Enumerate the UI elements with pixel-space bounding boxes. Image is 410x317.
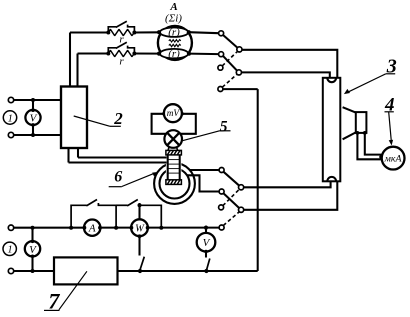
millivoltmeter frame right	[180, 114, 195, 134]
node W voltage bottom junction	[138, 269, 142, 273]
tube 3 top electrode cup	[327, 78, 336, 82]
detector 4 cone upper	[343, 107, 356, 112]
switch S1 bypass (over R1)	[108, 27, 116, 33]
node V1 top rim	[31, 108, 35, 112]
node meter bottom-left	[157, 52, 161, 56]
meter element ellipse bottom with (r)	[160, 48, 188, 60]
node V3 top rim	[31, 240, 35, 244]
microammeter mkA	[382, 147, 405, 170]
detector 4 cone lower	[343, 132, 356, 139]
node detector right pin	[363, 131, 367, 135]
contact C2	[219, 52, 224, 57]
furnace tube 6 bottom cap (hatched)	[166, 180, 182, 185]
wire loop outer end to contact D1	[190, 169, 220, 171]
pole P1	[237, 47, 242, 52]
node V3 top	[31, 226, 35, 230]
wire furnace lower lead	[69, 161, 167, 163]
wire meter to contact C1	[189, 32, 219, 33]
wire lower bottom row right	[118, 270, 258, 272]
wire V3 stubs	[31, 228, 33, 242]
wire W voltage coil down	[138, 236, 140, 255]
node R2 left	[106, 52, 110, 56]
svg-text:4: 4	[384, 95, 395, 116]
svg-text:2: 2	[113, 109, 123, 128]
svg-text:r: r	[119, 56, 124, 68]
wire regulator top to line A	[69, 33, 71, 87]
ammeter A2	[84, 220, 100, 236]
wire P2 to tube top left	[242, 72, 330, 78]
node meter top-right	[187, 30, 191, 34]
wire regulator bottom to furnace upper lead	[77, 148, 79, 158]
terminal X4 (lower source, bottom)	[8, 268, 13, 273]
pole Q2	[239, 207, 244, 212]
switch SA1 dashed C3-P1	[222, 51, 237, 66]
label 6 leader with arrow	[122, 173, 156, 187]
svg-text:A: A	[88, 223, 96, 235]
wire line B left	[78, 52, 109, 54]
heater element lower (zigzag)	[169, 44, 181, 46]
svg-text:3: 3	[386, 55, 397, 77]
node R1 left	[106, 31, 110, 35]
photocell tube 3	[323, 78, 341, 182]
switch SA2 blade D2-Q2	[223, 193, 239, 208]
switch S2 bypass (over R2)	[108, 48, 116, 54]
terminal X1 (upper source, top)	[8, 97, 13, 102]
label 2 leader	[74, 116, 110, 126]
wire V2 stub top	[205, 228, 207, 234]
wire V2 stub bottom	[205, 252, 207, 258]
switch blade V2	[206, 259, 209, 271]
wattmeter W	[131, 219, 148, 236]
svg-text:(r): (r)	[168, 27, 180, 39]
node bypass left	[69, 226, 73, 230]
furnace tube 6 top cap (hatched)	[166, 150, 182, 155]
node bypass mid	[114, 226, 118, 230]
millivoltmeter frame left	[152, 114, 166, 134]
node W right rim	[146, 226, 150, 230]
switch bypass over A and W (three legs)	[71, 205, 87, 227]
contact C4	[218, 87, 223, 92]
switch SA2 blade D1-Q1	[223, 172, 239, 186]
svg-text:(r): (r)	[168, 48, 180, 60]
contact C3	[218, 65, 223, 70]
terminal X3 (lower source, top)	[8, 225, 13, 230]
pole P2	[236, 70, 241, 75]
svg-text:мкА: мкА	[384, 153, 403, 164]
resistor R2 (zigzag, line B)	[108, 50, 134, 56]
contact D1	[219, 168, 224, 173]
wire regulator top to line B	[76, 54, 78, 87]
node microammeter input	[379, 155, 383, 159]
wire upper source top to regulator	[14, 99, 61, 101]
node meter bottom-right	[187, 52, 191, 56]
rheostat 7	[54, 257, 118, 284]
node detector left pin	[356, 131, 360, 135]
wire Q2 to tube bottom right	[244, 181, 338, 210]
node W left rim	[130, 226, 134, 230]
wire upper source bottom to regulator	[14, 134, 61, 136]
switch SA2 dashed D3-Q1	[223, 189, 240, 206]
switch SA1 blade C2-P2	[223, 56, 237, 71]
regulator 2 (autotransformer box)	[61, 87, 87, 149]
svg-text:A: A	[169, 1, 177, 13]
svg-text:1: 1	[8, 113, 13, 124]
wire V1 stubs	[32, 100, 34, 110]
furnace tube 6 white mask	[166, 150, 182, 184]
furnace tube 6 body sides	[167, 154, 169, 181]
svg-text:7: 7	[48, 289, 60, 314]
wire lower bottom row left	[14, 270, 54, 272]
svg-text:W: W	[135, 224, 145, 235]
thermocouple neck	[168, 146, 178, 150]
node R1 right	[132, 31, 136, 35]
node meter top-left	[157, 30, 161, 34]
node bypass right	[159, 226, 163, 230]
meter element ellipse top with (r)	[160, 27, 188, 39]
thermo-ammeter A(Sigma i) outer circle	[158, 26, 192, 60]
svg-text:6: 6	[114, 169, 122, 186]
voltmeter V2	[197, 233, 216, 252]
node V2 bottom junction	[204, 269, 208, 273]
wire Q1 to tube bottom left	[244, 181, 331, 187]
contact D4	[219, 225, 224, 230]
wire detector left pin to microammeter	[357, 133, 381, 159]
vertical bus	[257, 89, 259, 271]
node V2 top junction	[204, 226, 208, 230]
wire loop inner end to contact D2	[187, 175, 219, 191]
node A2 right rim	[98, 226, 102, 230]
contact D2	[219, 189, 224, 194]
contact C1	[219, 31, 224, 36]
source label 1 (lower)	[3, 242, 16, 256]
switch SA1 dashed C4-P2	[222, 74, 237, 87]
heater current loop (outer)	[154, 163, 195, 204]
tube 3 bottom electrode cup	[327, 177, 336, 181]
svg-text:1: 1	[7, 245, 12, 256]
voltmeter V1	[25, 110, 40, 125]
wire W voltage coil up	[138, 205, 140, 219]
node W bottom	[138, 234, 142, 238]
node V1 bottom junction	[31, 133, 35, 137]
wire line A left	[70, 31, 108, 33]
node R2 right	[132, 52, 136, 56]
node V1 bottom rim	[31, 123, 35, 127]
wire detector right pin to microammeter	[365, 133, 382, 155]
switch SA2 dashed D4-Q2	[223, 212, 239, 226]
svg-text:(Σi): (Σi)	[165, 12, 182, 24]
contact D3	[219, 205, 224, 210]
node V3 bottom	[31, 269, 35, 273]
node V2 bottom rim	[204, 250, 208, 254]
detector 4 body	[356, 112, 367, 133]
heater element upper (zigzag)	[169, 40, 181, 42]
switch SA1 blade C1-P1	[223, 35, 238, 48]
terminal X2 (upper source, bottom)	[8, 132, 13, 137]
label 4 leader with arrow	[389, 112, 392, 142]
heater current loop (inner)	[160, 169, 190, 199]
wire line A to meter	[134, 31, 160, 33]
voltmeter V3	[25, 241, 40, 256]
furnace tube 6 winding lines	[169, 159, 180, 161]
node A2 left rim	[83, 226, 87, 230]
svg-text:5: 5	[220, 118, 228, 135]
label 5 leader	[182, 131, 220, 141]
millivoltmeter mV	[164, 104, 182, 122]
node V3 bottom rim	[31, 254, 35, 258]
wire meter to contact C2	[189, 53, 219, 56]
wire furnace upper lead	[78, 156, 167, 158]
label 7 leader	[59, 271, 87, 310]
node W voltage top	[138, 203, 142, 207]
thermocouple 5 (crossed circle)	[164, 130, 182, 148]
node mV left	[162, 112, 166, 116]
node mV right	[180, 112, 184, 116]
wire line B to meter	[134, 52, 160, 54]
svg-text:mV: mV	[167, 109, 181, 119]
resistor R1 (zigzag, line A)	[108, 29, 134, 35]
source label 1 (upper)	[3, 111, 16, 125]
wire lower main (top row)	[14, 227, 219, 229]
switch blade W voltage	[140, 257, 145, 271]
label 3 leader with arrow	[346, 74, 386, 93]
wire regulator bottom to furnace lower lead	[67, 148, 69, 163]
node V1 top junction	[31, 98, 35, 102]
wire C4 to vertical bus	[223, 88, 258, 90]
pole Q1	[239, 185, 244, 190]
wire P1 to tube top right	[242, 50, 337, 78]
